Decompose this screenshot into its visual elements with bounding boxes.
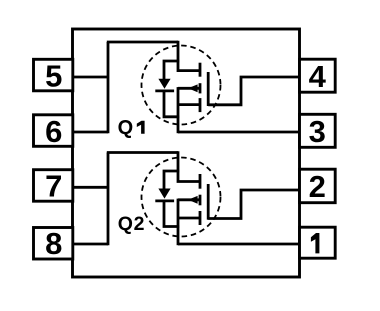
diode D1 anode branch bbox=[164, 61, 179, 79]
transistor Q1 drain lead bbox=[178, 41, 200, 71]
wire pin 4 to gate Q1 bbox=[208, 77, 300, 105]
wire pin 5 to drain net bbox=[72, 76, 109, 79]
transistor Q2 body arrow bbox=[188, 196, 198, 204]
wire pin 8 to drain net Q2 bbox=[72, 243, 109, 246]
wire pin 3 to source Q1 bbox=[178, 131, 301, 134]
svg-text:5: 5 bbox=[45, 58, 62, 93]
svg-text:7: 7 bbox=[45, 169, 62, 204]
svg-text:3: 3 bbox=[309, 114, 326, 149]
svg-text:Q2: Q2 bbox=[118, 213, 145, 235]
diode D2 anode branch bbox=[164, 171, 179, 189]
transistor Q2 body channel segment bbox=[199, 195, 202, 206]
pin 2 box bbox=[300, 169, 336, 204]
wire pin 7 to drain net Q2 bbox=[72, 186, 109, 189]
transistor Q1 drain channel segment bbox=[199, 63, 202, 77]
transistor Q1 source stub bbox=[178, 103, 200, 106]
pin 7 box bbox=[34, 169, 73, 204]
transistor Q2 source channel segment bbox=[199, 211, 202, 225]
transistor Q1 dashed circle bbox=[142, 46, 221, 125]
transistor Q2 drain channel segment bbox=[199, 174, 202, 189]
transistor Q2 source bus bbox=[177, 199, 180, 246]
svg-text:6: 6 bbox=[45, 114, 62, 149]
transistor Q2 source stub bbox=[178, 217, 200, 220]
pin 5 box bbox=[34, 58, 73, 93]
diode D1 cathode lead bbox=[164, 91, 179, 117]
svg-text:4: 4 bbox=[309, 59, 327, 94]
transistor Q1 body stub bbox=[178, 87, 200, 90]
svg-text:8: 8 bbox=[45, 226, 62, 261]
transistor Q1 body channel segment bbox=[199, 83, 202, 93]
transistor Q1 gate line bbox=[207, 72, 210, 106]
wire pin 6 to drain net bbox=[72, 131, 109, 134]
diode D1 cathode bar bbox=[155, 90, 174, 93]
transistor Q1 body arrow bbox=[188, 84, 198, 92]
diode D2 triangle bbox=[158, 189, 170, 199]
transistor Q2 body stub bbox=[178, 198, 200, 201]
pin 4 box bbox=[300, 59, 336, 94]
wire Q2 drain top bbox=[107, 151, 178, 154]
svg-text:Q: Q bbox=[118, 117, 134, 139]
diode D2 cathode bar bbox=[155, 199, 174, 202]
transistor Q2 dashed circle bbox=[142, 158, 221, 237]
diode D2 cathode lead bbox=[164, 201, 179, 227]
pin 1 box bbox=[300, 227, 336, 258]
wire pin 1 to source Q2 bbox=[178, 243, 301, 246]
pin 3 box bbox=[300, 114, 336, 149]
wire drain net vertical Q2 bbox=[107, 153, 110, 246]
transistor Q1 source bus bbox=[177, 87, 180, 133]
transistor Q1 source channel segment bbox=[199, 98, 202, 112]
diode D1 triangle bbox=[158, 79, 170, 89]
transistor Q2 drain lead bbox=[178, 151, 200, 181]
wire pin 2 to gate Q2 bbox=[208, 190, 300, 219]
svg-text:2: 2 bbox=[309, 169, 326, 204]
transistor Q2 gate line bbox=[207, 184, 210, 220]
pin 8 box bbox=[34, 226, 73, 261]
wire drain net vertical Q1 bbox=[107, 42, 110, 133]
package outline U1 bbox=[73, 29, 300, 277]
wire Q1 drain top bbox=[107, 41, 178, 44]
pin 6 box bbox=[34, 114, 73, 149]
